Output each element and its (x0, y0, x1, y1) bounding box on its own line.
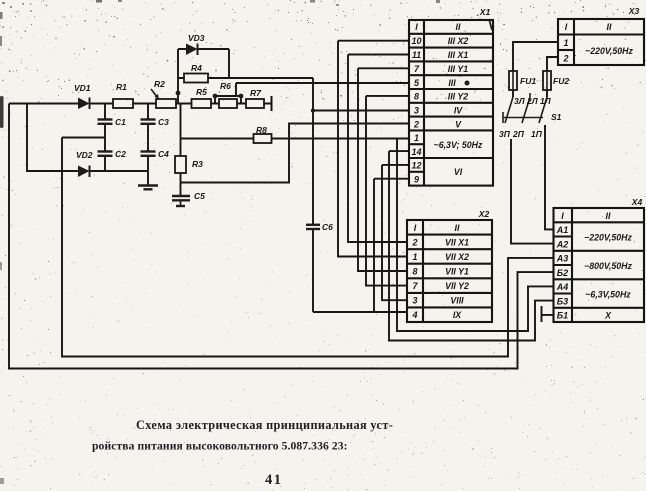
svg-text:8: 8 (414, 92, 419, 102)
svg-text:A2: A2 (556, 239, 569, 249)
svg-text:X2: X2 (478, 209, 490, 219)
svg-text:II: II (455, 223, 460, 233)
svg-text:41: 41 (265, 472, 283, 488)
svg-text:IV: IV (454, 106, 463, 116)
wire R7 end terminal (271, 96, 273, 111)
svg-text:R1: R1 (116, 82, 127, 92)
svg-text:C6: C6 (322, 222, 333, 232)
wire X4 Б1 stub (542, 306, 554, 322)
svg-text:I: I (415, 22, 418, 32)
capacitor C6 (306, 222, 333, 232)
diode VD1 (74, 83, 91, 109)
wire switch 1P to X4 A1 (545, 125, 554, 229)
wire pin1 net down to X4 A4 (397, 139, 554, 332)
svg-text:1: 1 (414, 133, 419, 143)
svg-text:1Л: 1Л (540, 96, 551, 106)
svg-text:R2: R2 (154, 79, 165, 89)
wire VD3R4 left vertical (177, 49, 179, 104)
resistor R6 (219, 81, 237, 108)
resistor R3 (175, 156, 203, 173)
wire pin12 to X2 pin3 (382, 165, 409, 300)
wire FU2 to switch (546, 90, 548, 97)
svg-text:I: I (565, 22, 568, 32)
svg-text:III: III (448, 78, 456, 88)
svg-text:X1: X1 (479, 7, 491, 17)
svg-text:A4: A4 (556, 282, 569, 292)
stray pen mark above X1 (489, 19, 492, 30)
svg-text:VD2: VD2 (76, 150, 93, 160)
wire pin14 to X4 Б3 (389, 151, 554, 340)
fuse FU1 (509, 71, 536, 90)
node R6-R7 junction (239, 94, 244, 99)
svg-text:VII Y1: VII Y1 (445, 267, 469, 277)
connector X1 table (409, 20, 493, 186)
svg-text:II: II (606, 211, 611, 221)
svg-text:X4: X4 (631, 197, 643, 207)
svg-text:3: 3 (412, 296, 417, 306)
svg-text:11: 11 (412, 50, 421, 60)
svg-text:Схема электрическая принципиал: Схема электрическая принципиальная уст- (136, 418, 393, 432)
svg-text:VII X2: VII X2 (445, 252, 469, 262)
capacitor C1 (98, 117, 127, 127)
svg-text:R3: R3 (192, 159, 203, 169)
svg-text:7: 7 (414, 64, 420, 74)
svg-text:7: 7 (412, 281, 418, 291)
svg-text:C5: C5 (194, 191, 205, 201)
connector X2 table (407, 220, 492, 322)
capacitor C2 (98, 149, 127, 159)
svg-text:2: 2 (411, 238, 417, 248)
wire X1 pin11 to X2 pin2 (348, 55, 409, 243)
wire R3 column (180, 104, 182, 196)
svg-text:A3: A3 (556, 254, 569, 264)
svg-text:ройства питания высоковольтног: ройства питания высоковольтного 5.087.33… (92, 440, 348, 453)
svg-text:2: 2 (413, 120, 419, 130)
svg-text:10: 10 (411, 36, 421, 46)
wire main row (9, 103, 272, 105)
svg-text:14: 14 (411, 147, 421, 157)
resistor R8 (254, 125, 272, 143)
wire X1 pin10 to X2 pin1 (338, 41, 409, 257)
svg-text:4: 4 (411, 310, 417, 320)
capacitor C4 (141, 149, 170, 159)
svg-text:FU1: FU1 (520, 76, 536, 86)
svg-text:Б2: Б2 (557, 268, 568, 278)
svg-text:~220V,50Hz: ~220V,50Hz (585, 46, 633, 56)
svg-text:VIII: VIII (450, 296, 464, 306)
svg-text:R8: R8 (256, 125, 267, 135)
svg-text:C4: C4 (158, 149, 169, 159)
svg-text:3П: 3П (499, 129, 511, 139)
svg-text:C1: C1 (115, 117, 126, 127)
fuse FU2 (543, 71, 569, 90)
svg-text:1П: 1П (531, 129, 543, 139)
capacitor C3 (141, 117, 170, 127)
wire C6 line to X2 pin4 (313, 311, 407, 313)
svg-text:III Y2: III Y2 (448, 92, 468, 102)
svg-text:~6,3V; 50Hz: ~6,3V; 50Hz (434, 140, 483, 150)
node wireA-pin3 junction (311, 108, 315, 112)
wire R8 row to X1 pin1 (181, 138, 410, 140)
junction dots (176, 91, 316, 113)
svg-text:3: 3 (414, 106, 419, 116)
svg-text:3Л: 3Л (514, 96, 525, 106)
svg-text:2П: 2П (512, 129, 525, 139)
svg-text:VD3: VD3 (188, 33, 205, 43)
wire VD3 row (178, 48, 229, 50)
capacitor C5 (172, 191, 205, 206)
svg-text:−800V,50Hz: −800V,50Hz (584, 261, 632, 271)
svg-text:R7: R7 (250, 88, 262, 98)
wire switch 3P to X4 A2 (511, 139, 554, 244)
svg-text:V: V (455, 120, 462, 130)
svg-text:VD1: VD1 (74, 83, 91, 93)
wire R4 row (178, 49, 229, 78)
svg-text:R4: R4 (191, 63, 202, 73)
svg-text:III X1: III X1 (448, 50, 469, 60)
svg-text:C3: C3 (158, 117, 169, 127)
wire B taps R5R6 junction to X1 pin5 (215, 83, 409, 104)
svg-text:I: I (561, 211, 564, 221)
svg-text:VII X1: VII X1 (445, 238, 469, 248)
svg-text:II: II (456, 22, 461, 32)
svg-text:S1: S1 (551, 112, 562, 122)
svg-text:1: 1 (563, 38, 568, 48)
wire left outer vertical to X4 Б2 (9, 104, 554, 369)
svg-text:5: 5 (414, 78, 420, 88)
svg-text:Б3: Б3 (557, 296, 568, 306)
svg-text:1: 1 (412, 252, 417, 262)
caption text (92, 418, 393, 488)
svg-text:VI: VI (454, 167, 463, 177)
wire A from R4 to X1 pin3 and C6 column (229, 78, 409, 312)
node X1 pin5 dot (465, 81, 470, 86)
svg-text:C2: C2 (115, 149, 126, 159)
connector X4 table (554, 208, 645, 322)
svg-text:8: 8 (412, 267, 417, 277)
resistor R7 (246, 88, 264, 108)
svg-text:R6: R6 (220, 81, 231, 91)
svg-text:A1: A1 (556, 225, 569, 235)
connector X3 table (558, 19, 644, 65)
resistor R4 (184, 63, 208, 83)
svg-text:12: 12 (411, 161, 421, 171)
edge smudges (0, 0, 440, 484)
svg-text:−220V,50Hz: −220V,50Hz (584, 233, 632, 243)
svg-text:I: I (414, 223, 417, 233)
wire C3C4 column (147, 104, 149, 186)
svg-text:III Y1: III Y1 (448, 64, 468, 74)
wire X3 pin2 to FU2 (547, 57, 558, 71)
wire X1 pin8 to X2 pin7 (366, 96, 409, 286)
svg-text:2Л: 2Л (526, 96, 538, 106)
svg-text:IX: IX (453, 310, 462, 320)
diode VD2 (76, 150, 93, 177)
resistor R5 (192, 87, 212, 108)
wire X1 pin7 to X2 pin8 (358, 68, 409, 271)
svg-text:R5: R5 (196, 87, 207, 97)
svg-text:III X2: III X2 (448, 36, 469, 46)
svg-text:X3: X3 (628, 6, 640, 16)
svg-text:FU2: FU2 (553, 76, 569, 86)
node R5-R6 junction (213, 94, 218, 99)
svg-text:X: X (604, 311, 612, 321)
wire X3 pin1 to FU1 (513, 42, 558, 71)
svg-text:VII Y2: VII Y2 (445, 281, 469, 291)
wire VD2 branch (27, 104, 148, 172)
svg-text:II: II (607, 22, 612, 32)
svg-text:Б1: Б1 (557, 311, 568, 321)
resistor R2 (rheostat) (151, 79, 176, 108)
wire R3 bottom to X1 pin2 (181, 124, 410, 183)
diode VD3 (186, 33, 205, 55)
svg-text:~6,3V,50Hz: ~6,3V,50Hz (585, 290, 631, 300)
svg-text:9: 9 (414, 175, 419, 185)
resistor R1 (113, 82, 133, 108)
wire C1C2 mid tap to X4 A3 (62, 138, 554, 357)
svg-text:2: 2 (562, 54, 568, 64)
wire pin9 to C6 line (374, 179, 409, 312)
node R2-R5 junction (176, 91, 181, 96)
ground (138, 186, 158, 190)
wire C1C2 column (104, 104, 106, 172)
wire FU1 to switch (512, 90, 514, 97)
switch S1 (503, 93, 547, 123)
